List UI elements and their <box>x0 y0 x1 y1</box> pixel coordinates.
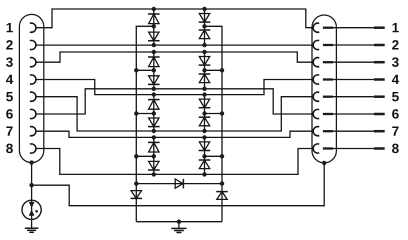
wire mid node B2 <box>205 69 223 71</box>
wire earth rail <box>136 221 222 223</box>
wire right pin leads to terminal dashes <box>332 28 374 149</box>
diode D11 (col2 sec2 down) <box>199 57 211 66</box>
junction dots line 7 bus <box>152 135 207 139</box>
diode D6 (col1 sec3 down) <box>148 118 160 127</box>
diode D4 (col1 sec2 down) <box>148 76 160 85</box>
wire line 5 (left pin 5 to right pin 5) <box>36 97 313 131</box>
junction dots line 8 bus <box>152 172 207 176</box>
diode D17 (horizontal, A to B) <box>175 179 183 188</box>
junction dots bus A <box>134 68 138 186</box>
left pin contacts 1-8 <box>30 23 36 153</box>
wire line 3 (left pin 3 to right pin 3) <box>36 52 313 62</box>
junction dot right shell <box>322 161 326 165</box>
wire bus A lower stem <box>135 184 137 222</box>
diode D13 (col2 sec3 down) <box>199 99 211 108</box>
wire bottom diode line A to B <box>136 183 222 185</box>
wire shield link left shell to right shell <box>32 163 325 206</box>
ground (center) <box>171 228 186 232</box>
junction dots line 4 bus <box>152 92 207 96</box>
ground (left) <box>25 228 39 232</box>
wire mid node B3 <box>205 113 223 115</box>
diode D1 (col1 sec1 up) <box>148 14 160 24</box>
diode D18 (left down to earth rail) <box>131 191 143 199</box>
diode D12 (col2 sec2 up) <box>199 74 211 83</box>
wire collector bus A (left column mid nodes to bottom stage) <box>136 26 154 183</box>
pin labels right 1-8 <box>392 23 399 153</box>
wire mid node A4 <box>136 155 154 157</box>
diode D8 (col1 sec4 down) <box>148 161 160 170</box>
wire line 4 (left pin 4 to right pin 4) <box>36 80 313 95</box>
junction dots line 2 <box>152 43 207 47</box>
wire earth stub center <box>178 222 180 228</box>
gas discharge tube F1 <box>22 200 41 219</box>
junction dots bus B <box>220 68 224 186</box>
wire line 7 (left pin 7 to right pin 7) <box>36 131 313 137</box>
junction dots line 1 <box>152 7 207 11</box>
pin labels left 1-8 <box>6 23 13 153</box>
wire left connector shell to GDT and earth <box>31 163 33 228</box>
wire line 6 (left pin 6 to right pin 6) <box>36 89 313 114</box>
wire column 2 section stems <box>204 9 206 174</box>
diode D9 (col2 sec1 down) <box>199 14 211 23</box>
right pin contacts 1-8 <box>313 23 319 153</box>
diode D3 (col1 sec2 up) <box>148 57 160 67</box>
diode D16 (col2 sec4 up) <box>199 160 211 169</box>
wire line 1 (left pin 1 to right pin 1) <box>36 9 313 28</box>
diode D5 (col1 sec3 up) <box>148 100 160 110</box>
diode D10 (col2 sec1 up) <box>199 30 211 39</box>
diode D7 (col1 sec4 up) <box>148 142 160 152</box>
diode D14 (col2 sec3 up) <box>199 117 211 126</box>
diode D15 (col2 sec4 down) <box>199 142 211 151</box>
wire mid node A3 <box>136 113 154 115</box>
wire collector bus B (right column mid nodes to bottom stage) <box>205 26 223 183</box>
right pin plug bars and terminal dashes <box>323 26 385 149</box>
left connector shell X1 <box>19 14 43 162</box>
wire column 1 section stems <box>153 9 155 174</box>
junction dots line 5 bus <box>152 129 207 133</box>
wire line 8 (left pin 8 to right pin 8) <box>36 149 313 175</box>
junction dots column mid nodes <box>152 24 207 158</box>
diode D2 (col1 sec1 down) <box>148 32 160 41</box>
right connector shell X2 <box>312 15 336 163</box>
junction dots line 3 <box>152 50 207 54</box>
wire bus B lower stem <box>221 184 223 222</box>
junction dots left shell <box>29 160 33 187</box>
wire mid node A2 <box>136 69 154 71</box>
diode D19 (right up from earth rail) <box>216 192 228 200</box>
wire line 2 (left pin 2 to right pin 2) <box>36 44 313 46</box>
junction dots line 6 bus <box>152 87 207 91</box>
junction dot earth rail <box>177 220 181 224</box>
wire mid node B4 <box>205 155 223 157</box>
